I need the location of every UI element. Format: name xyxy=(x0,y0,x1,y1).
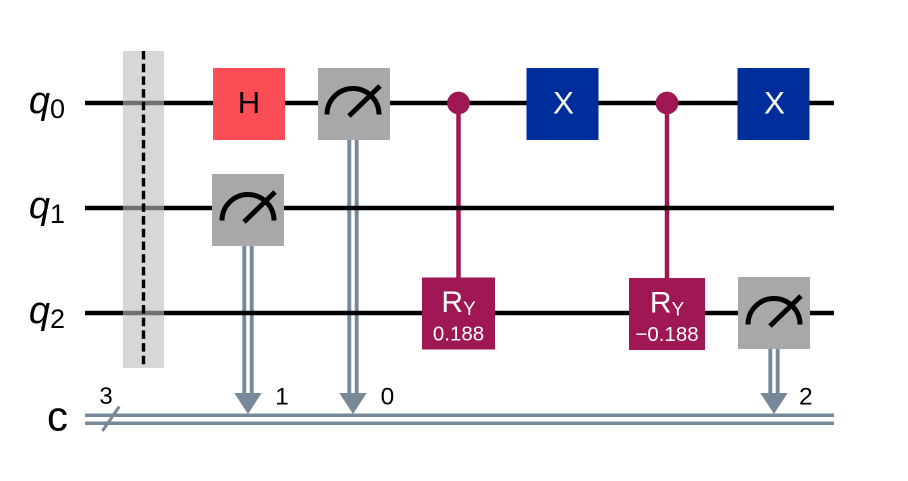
svg-text:H: H xyxy=(238,85,260,120)
gate RY(-0.188) on q2 xyxy=(629,278,705,350)
qubit wire q1 xyxy=(85,206,834,211)
svg-text:1: 1 xyxy=(275,384,289,411)
svg-text:−0.188: −0.188 xyxy=(635,323,698,346)
gate H on q0 xyxy=(213,68,285,140)
qubit wire q0 xyxy=(85,101,834,106)
measure M0 gate box on q0 xyxy=(318,68,390,140)
controlled-RY #2 control line xyxy=(665,103,670,278)
measure M2 arrow (q2 to clbit 2) xyxy=(760,349,787,414)
svg-text:c: c xyxy=(47,393,68,440)
creg slash xyxy=(102,407,119,432)
measure M0 arrow (q0 to clbit 0) xyxy=(339,140,366,414)
controlled-RY #1 control line xyxy=(456,103,461,278)
measure M1 arrow (q1 to clbit 1) xyxy=(234,246,261,414)
svg-text:3: 3 xyxy=(99,383,112,410)
qubit wire q2 xyxy=(85,311,834,316)
control dot on q0 (CRY #1) xyxy=(447,92,470,115)
svg-text:X: X xyxy=(553,84,574,120)
gate X #1 on q0 xyxy=(527,68,599,140)
gate X #2 on q0 xyxy=(738,68,810,140)
svg-text:0.188: 0.188 xyxy=(433,323,484,346)
gate RY(0.188) on q2 xyxy=(422,278,495,350)
svg-text:2: 2 xyxy=(799,384,813,411)
control dot on q0 (CRY #2) xyxy=(656,92,679,115)
svg-text:0: 0 xyxy=(381,384,395,411)
measure M2 gate box on q2 xyxy=(738,277,810,349)
classical wire c (double line) xyxy=(85,415,834,423)
barrier xyxy=(123,51,164,368)
measure M1 gate box on q1 xyxy=(212,174,284,246)
svg-text:X: X xyxy=(764,84,785,120)
